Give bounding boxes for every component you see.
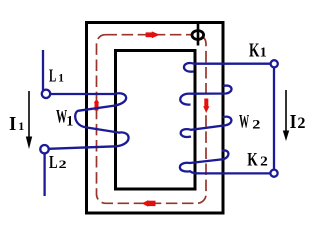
svg-text:K: K [249, 39, 260, 61]
svg-text:L: L [49, 153, 58, 172]
svg-text:2: 2 [252, 118, 260, 132]
svg-text:2: 2 [297, 115, 305, 132]
svg-text:1: 1 [18, 119, 24, 133]
svg-text:2: 2 [260, 154, 268, 169]
svg-text:1: 1 [58, 73, 64, 85]
svg-text:W: W [239, 113, 249, 133]
svg-text:L: L [49, 67, 56, 86]
svg-text:1: 1 [66, 113, 73, 129]
svg-text:K: K [247, 148, 258, 170]
svg-text:I: I [290, 111, 297, 133]
svg-text:1: 1 [260, 46, 267, 61]
svg-text:2: 2 [59, 159, 67, 172]
svg-text:I: I [9, 114, 16, 136]
